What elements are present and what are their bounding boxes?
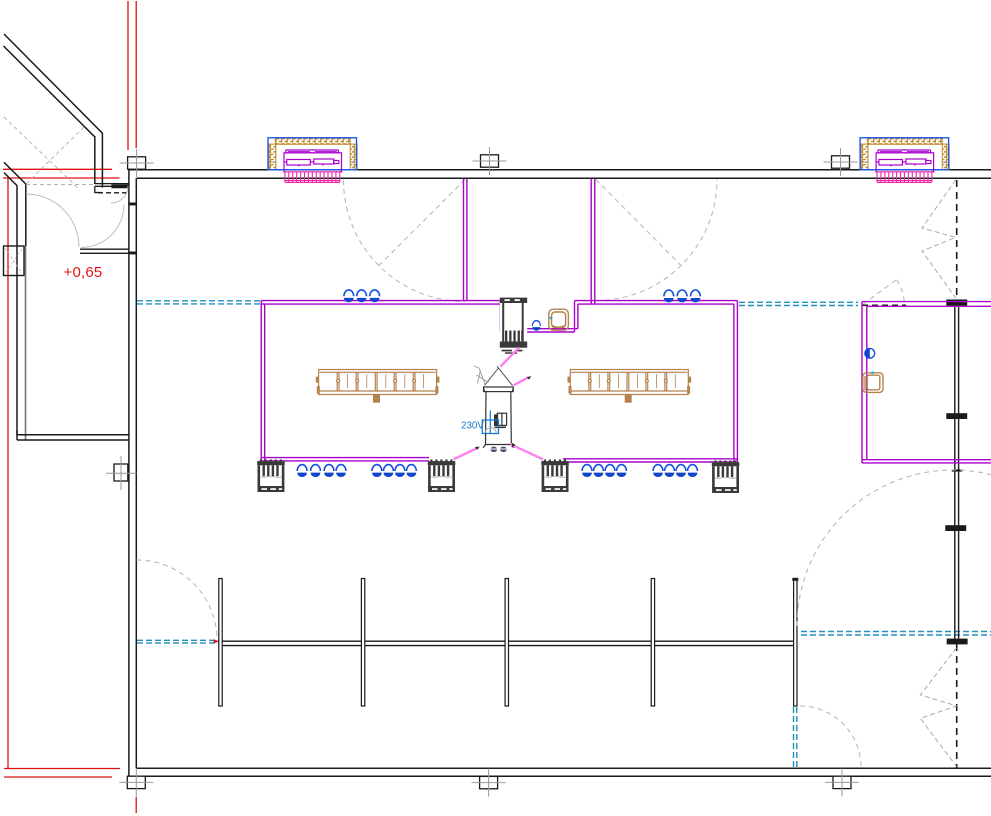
dashed X canopy marks [4, 117, 94, 190]
work table right [568, 370, 692, 403]
cyclone flange [484, 387, 514, 392]
HVAC unit right (air handler in wall) [860, 138, 949, 183]
lamp 15 [582, 465, 592, 477]
magenta wall: corridor east pair x593 [591, 179, 595, 304]
wall: left exterior (double line) [129, 170, 136, 777]
tiny red arrow at cyan/partition joint [214, 639, 220, 643]
lamp 17 [605, 465, 615, 477]
partition post 4 [651, 579, 654, 707]
door swing arc left corridor [344, 180, 466, 302]
hidden dashed line below mullion [956, 644, 958, 768]
column marker bottom-mid [472, 769, 506, 797]
door swing arc bottom left [137, 560, 218, 640]
column marker bottom-right [825, 768, 859, 796]
cyan dashed opening left (y301) [137, 301, 261, 304]
magenta wall: left room west wall [261, 301, 265, 490]
wall: annex west diagonal + vertical double [4, 162, 26, 434]
magenta wall: right room bottom [563, 459, 737, 462]
wall: top exterior (double line) [128, 170, 991, 179]
motor box inside cyclone [495, 413, 507, 427]
lamp 21 [676, 465, 686, 477]
lamp 9 [324, 465, 334, 477]
lamp 1 [344, 290, 354, 302]
lamp vestibule (small) [532, 321, 540, 331]
work table left [316, 370, 440, 403]
bifold door dashes top-right [922, 180, 956, 298]
wall: interior wall y250 annex [80, 249, 129, 253]
magenta wall: right room east wall [734, 301, 738, 462]
cyan dashed opening bottom-right [801, 632, 991, 636]
cyan dashed vertical bottom-right [794, 707, 797, 767]
lamp 4 [664, 290, 674, 302]
lamp 18 [617, 465, 627, 477]
radiator 1 bottom row [257, 460, 285, 493]
magenta wall: big room top-right segment [575, 301, 738, 305]
magenta wall: alcove east jamb x576 [575, 301, 578, 332]
pink ray short with arrow NE [513, 377, 528, 385]
wall: annex south (double) [17, 431, 129, 441]
HVAC unit left (air handler in wall) [268, 138, 357, 183]
lamp 10 [336, 465, 346, 477]
door swing big arc right area [797, 470, 991, 626]
svg-text:230V: 230V [461, 420, 484, 431]
column marker top-right [824, 148, 858, 176]
cyclone cone [485, 366, 513, 386]
cyan dashed opening bottom-left [137, 640, 219, 643]
red horizontals bottom-left [4, 769, 120, 778]
door leaf dashed right corridor [596, 180, 682, 267]
magenta wall: left room bottom [262, 458, 429, 461]
mullion crossbar y302 [946, 300, 967, 306]
pink ray to radiator 2 [454, 448, 478, 460]
gray layer line annex west [25, 246, 27, 440]
glazed mullion column right (double vertical) [955, 306, 959, 643]
lamp 12 [384, 465, 394, 477]
door swing arc small room [863, 280, 897, 305]
wall lamp half-circle small room [865, 348, 875, 358]
capsule feet under cyclone [491, 447, 507, 452]
radiator 3 bottom row [541, 460, 569, 493]
svg-text:+0,65: +0,65 [64, 264, 103, 281]
magenta wall: small room west wall [862, 302, 867, 463]
pink ray to radiator 3 [511, 444, 544, 459]
lamp 11 [372, 465, 382, 477]
lamp 14 [407, 465, 417, 477]
socket symbol blue square [482, 411, 498, 434]
chair small room (brown) [863, 372, 883, 393]
red vertical line left edge [7, 178, 9, 768]
wall: diagonal canopy walls upper-left [4, 34, 103, 188]
hidden dashed line above mullion [956, 180, 958, 300]
pink ray to vestibule radiator [501, 348, 520, 367]
partition rail horizontal (double) [219, 641, 795, 645]
red vertical below bottom-left corner [135, 797, 137, 813]
red gridline vertical pair top-left [128, 1, 136, 150]
wall junction tick y203 on left wall [128, 203, 136, 206]
partition post 5 (corner) [794, 580, 797, 707]
hidden dashed opening small room [862, 304, 906, 306]
column block on left edge [4, 246, 25, 276]
lamp 8 [311, 465, 321, 477]
column marker top-left [120, 149, 154, 177]
lamp 16 [594, 465, 604, 477]
radiator 2 bottom row [428, 460, 456, 493]
lamp 2 [357, 290, 367, 302]
radiator 4 bottom row [712, 461, 740, 494]
lamp 19 [653, 465, 663, 477]
door leaf dashed left corridor [379, 180, 465, 266]
wall: bottom exterior (double line) [128, 768, 991, 776]
magenta wall: small room bottom [862, 460, 991, 463]
cyan dashed opening right of big room [739, 302, 858, 305]
wall-mounted column marker left wall y473 [114, 464, 128, 481]
partition post 3 [505, 579, 508, 707]
magenta wall: small room top [862, 302, 991, 307]
lamp 7 [297, 465, 307, 477]
magenta wall: vestibule jamb x502 [500, 301, 504, 332]
door arc annex interior [81, 205, 124, 248]
radiator vestibule (vertical unit) [500, 296, 527, 354]
magenta wall: big room top-left segment [261, 301, 504, 305]
mullion crossbar y416 [946, 413, 967, 419]
mullion tick y470 [952, 469, 962, 471]
door swing arc bottom middle [800, 706, 861, 767]
partition post 2 [361, 579, 364, 707]
lamp 20 [665, 465, 675, 477]
chair vestibule (brown) [549, 309, 569, 330]
partition post 1 [219, 579, 222, 707]
door swing arc right corridor [596, 180, 717, 301]
cyclone body [483, 388, 514, 448]
wall junction tick y252 on left wall [128, 252, 136, 255]
mullion crossbar y641 [947, 639, 968, 645]
door arc small at annex entry [111, 186, 128, 203]
door arc annex west [26, 194, 79, 247]
cyclone scribble [474, 366, 489, 384]
wall: annex north pieces at y184-193 [95, 184, 129, 193]
lamp 3 [370, 290, 380, 302]
column marker bottom-left [119, 768, 153, 796]
column marker top-mid [473, 147, 507, 175]
lamp 5 [677, 290, 687, 302]
bifold door dashes bottom-right [920, 648, 956, 767]
magenta wall: corridor west pair x465 [464, 179, 467, 302]
lamp 6 [691, 290, 701, 302]
lamp 22 [688, 465, 698, 477]
mullion crossbar y528 [945, 525, 966, 531]
magenta wall: alcove bottom y330 [500, 329, 578, 332]
red gridline horizontals upper-left [3, 169, 120, 178]
lamp 13 [395, 465, 405, 477]
